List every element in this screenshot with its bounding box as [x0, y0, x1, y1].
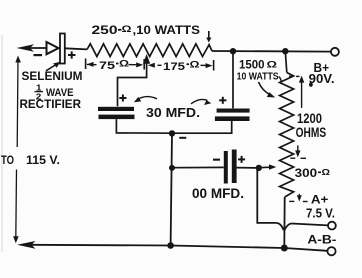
- svg-text:250: 250: [92, 25, 118, 37]
- junction dot A+ node: [256, 165, 262, 171]
- svg-text:Ω: Ω: [122, 24, 132, 34]
- wire top to right 30mfd cap: [232, 52, 234, 108]
- dimension arrow right to end bar: [201, 64, 209, 66]
- wire A+ node down and right: [257, 169, 276, 223]
- curved arrow to left cap: [138, 97, 158, 100]
- minus sign 00mfd: [213, 159, 220, 161]
- dimension bar mid: [143, 59, 145, 70]
- svg-text:TO: TO: [1, 155, 14, 167]
- junction dot bleeder / bottom wire: [281, 245, 288, 252]
- svg-text:A-B-: A-B-: [307, 235, 336, 247]
- junction dot top wire / bleeder: [282, 48, 288, 54]
- svg-text:10 WATTS: 10 WATTS: [237, 72, 279, 83]
- svg-text:Ω: Ω: [119, 59, 129, 69]
- wire tap to left 30mfd cap: [118, 60, 147, 106]
- svg-text:7.5 V.: 7.5 V.: [306, 205, 335, 220]
- tap marker dashes: [290, 157, 295, 159]
- wire rectifier to resistor: [65, 48, 87, 49]
- dimension bar left 75 ohm: [85, 59, 87, 70]
- svg-text:WAVE: WAVE: [46, 87, 74, 99]
- plus sign left 30mfd: [119, 95, 126, 102]
- ground bus vertical: [171, 133, 172, 245]
- capacitor 30 MFD left plates: [98, 107, 134, 111]
- selenium rectifier diode triangle: [47, 42, 59, 54]
- bottom wire to 115V with arrow: [30, 245, 327, 251]
- minus sign caps ground: [179, 137, 186, 139]
- B+ terminal: [331, 48, 339, 56]
- wire top left with arrow to 115V: [28, 47, 46, 49]
- wire left 30mfd cap to ground bus: [116, 119, 172, 133]
- B+ marker up arrow: [301, 80, 303, 108]
- wire 00mfd cap to junction: [237, 167, 256, 169]
- label arrow to rectifier: [46, 64, 57, 71]
- svg-text:,10 WATTS: ,10 WATTS: [133, 25, 201, 37]
- A+ marker dashes: [289, 200, 294, 202]
- svg-text:Ω: Ω: [322, 167, 331, 177]
- capacitor 30 MFD right plates: [217, 109, 250, 113]
- svg-text:30 MFD.: 30 MFD.: [146, 105, 200, 120]
- A+ terminal: [328, 222, 336, 230]
- dimension arrow left: [87, 63, 97, 65]
- to-115V upper indicator line: [16, 58, 19, 147]
- resistor 1500 ohm bleeder lead: [285, 51, 287, 72]
- svg-text:OHMS: OHMS: [296, 124, 327, 140]
- svg-text:SELENIUM: SELENIUM: [22, 71, 83, 83]
- capacitor 00 MFD plates: [224, 151, 228, 184]
- junction dot bus / 00mfd: [169, 165, 175, 171]
- arrow junction to resistor tap: [262, 166, 272, 168]
- svg-text:75: 75: [99, 60, 115, 72]
- plus sign right 30mfd: [219, 97, 226, 104]
- wire to A+ terminal: [292, 224, 329, 226]
- svg-text:175: 175: [163, 61, 185, 73]
- wire right 30mfd cap to ground bus: [172, 121, 232, 133]
- A+ marker down arrow: [298, 194, 300, 198]
- minus sign rectifier: [34, 54, 43, 56]
- svg-text:00 MFD.: 00 MFD.: [192, 186, 244, 201]
- dimension arrow right toward tap: [129, 64, 139, 66]
- junction dot bus / bottom wire: [167, 242, 174, 249]
- junction dot caps ground: [169, 130, 175, 136]
- resistor 1500 ohm zigzag: [280, 73, 294, 198]
- scan edge artifact left: [1, 35, 3, 252]
- resistor 250 ohm 10 watts zigzag: [87, 44, 212, 57]
- arrow 1500 label to resistor: [259, 82, 271, 95]
- dimension bar right: [213, 60, 215, 71]
- to-115V lower indicator line: [15, 170, 18, 240]
- curved arrow to right cap: [191, 99, 208, 103]
- svg-text:Ω: Ω: [190, 60, 200, 70]
- svg-text:1500: 1500: [239, 58, 265, 72]
- plus sign rectifier: [68, 51, 76, 58]
- arrow from 250 ohm label down to resistor: [208, 31, 210, 39]
- leader tick after 10 WATTS: [279, 77, 281, 83]
- svg-text:Ω: Ω: [267, 59, 278, 69]
- plus sign 00mfd: [238, 156, 245, 163]
- B+ marker dashes: [289, 75, 294, 77]
- wire hop under resistor lead: [276, 223, 283, 230]
- junction dot top wire / right cap: [230, 48, 236, 54]
- svg-text:RECTIFIER: RECTIFIER: [20, 99, 82, 111]
- svg-text:115 V.: 115 V.: [26, 155, 60, 167]
- 1200 marker down arrow: [297, 145, 299, 153]
- wire resistor to B+ terminal: [212, 50, 331, 53]
- resistor bottom lead to A-B- line: [283, 197, 285, 248]
- selenium rectifier plate: [60, 34, 65, 64]
- A-B- terminal: [327, 247, 335, 255]
- tap arrow on resistor: [143, 54, 150, 64]
- wire bus to 00mfd cap: [172, 166, 224, 168]
- dimension arrow pointing left (175): [148, 63, 155, 68]
- svg-text:300: 300: [295, 168, 318, 180]
- arrowhead top-left wire: [17, 44, 35, 52]
